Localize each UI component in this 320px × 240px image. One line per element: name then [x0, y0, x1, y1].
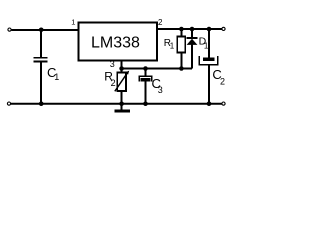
wire R1 bottom stub	[180, 53, 182, 69]
wire bottom rail	[11, 103, 222, 105]
wire top rail right (pin 2 to output)	[157, 28, 222, 30]
input terminal top-left	[8, 28, 11, 31]
wire D1 bottom lead	[191, 45, 193, 69]
wire C1 top stub	[40, 29, 42, 57]
svg-text:2: 2	[220, 76, 225, 86]
input terminal bottom-left	[7, 102, 10, 105]
svg-text:1: 1	[71, 18, 75, 27]
capacitor C2 cup	[199, 56, 218, 65]
potentiometer R2 arrow	[115, 73, 128, 92]
node R2 / ground	[119, 101, 124, 106]
wire R2 bottom stub	[121, 91, 123, 104]
diode D1 triangle	[187, 39, 198, 45]
regulator U1 LM338 box	[79, 23, 158, 61]
diode D1 cathode bar	[186, 37, 197, 39]
wire C3 top stub	[145, 69, 147, 77]
capacitor C3 plate	[141, 78, 151, 81]
node C1 bottom	[39, 101, 44, 106]
output terminal bottom-right	[222, 102, 225, 105]
node C3 bottom	[143, 101, 148, 106]
svg-text:1: 1	[170, 42, 175, 51]
svg-text:2: 2	[158, 18, 163, 27]
wire R1 top stub	[180, 29, 182, 37]
wire D1 top stub	[191, 29, 193, 37]
wire top rail left (input to pin 1)	[11, 29, 78, 31]
node C3 top	[143, 66, 148, 71]
svg-text:1: 1	[54, 72, 59, 82]
output terminal top-right	[222, 27, 225, 30]
node adjust / R2 top	[119, 66, 124, 71]
capacitor C2 plate	[203, 58, 215, 62]
ground stub	[121, 104, 123, 110]
wire C3 bottom stub	[145, 81, 147, 104]
wire adjust rail	[122, 68, 192, 70]
node R1 bottom	[179, 66, 184, 71]
capacitor C1 top plate	[33, 57, 47, 59]
wire pin 3 stub	[121, 61, 123, 69]
node R1 top	[179, 27, 184, 32]
potentiometer R2 body	[117, 73, 126, 92]
svg-text:3: 3	[110, 59, 115, 69]
node C1 top junction	[39, 28, 44, 33]
resistor R1	[177, 37, 185, 53]
svg-text:2: 2	[111, 78, 116, 88]
node C2 bottom	[207, 101, 212, 106]
wire C2 bottom stub	[208, 66, 210, 104]
svg-text:LM338: LM338	[91, 35, 140, 52]
node C2 top	[207, 27, 212, 32]
capacitor C1 bottom plate	[33, 61, 47, 63]
node D1 top	[190, 27, 195, 32]
svg-text:3: 3	[158, 85, 163, 95]
wire R2 top stub	[121, 69, 123, 73]
capacitor C3 cup	[139, 76, 151, 81]
ground bar	[115, 109, 131, 112]
wire C2 top stub	[208, 29, 210, 58]
wire C1 bottom stub	[40, 63, 42, 105]
